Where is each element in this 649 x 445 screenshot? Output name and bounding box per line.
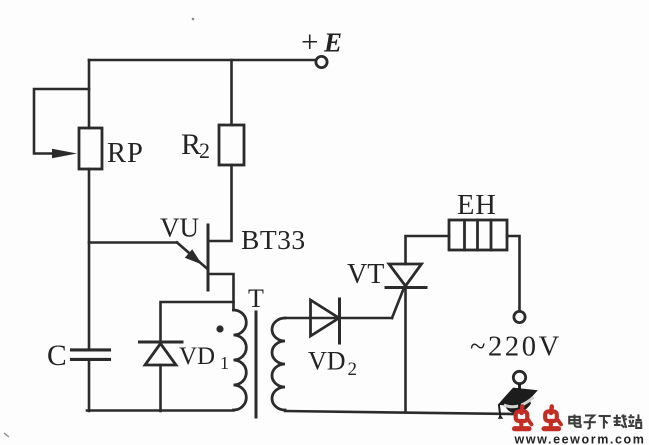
diode VD1 cathode bar bbox=[140, 341, 183, 344]
wire VT anode up to EH bbox=[406, 236, 450, 264]
svg-text:BT33: BT33 bbox=[241, 224, 306, 255]
watermark bug char 2 bbox=[544, 407, 561, 429]
svg-text:VU: VU bbox=[160, 213, 199, 243]
watermark cap gray arc bbox=[504, 397, 534, 407]
wire lower terminal lead through cap bbox=[518, 384, 521, 411]
terminal upper 220V bbox=[514, 311, 525, 322]
wire bottom rail right bbox=[285, 411, 513, 414]
svg-text:VD: VD bbox=[179, 343, 215, 370]
wire VT cathode down bbox=[404, 288, 407, 412]
char zi bbox=[584, 416, 596, 429]
transistor VU emitter arrow bbox=[185, 249, 202, 264]
potentiometer RP bbox=[79, 128, 102, 169]
wire R2 top bbox=[230, 60, 233, 125]
diode VD2 triangle bbox=[311, 300, 340, 336]
svg-text:2: 2 bbox=[199, 138, 210, 163]
RP wiper arrow bbox=[52, 149, 77, 159]
svg-text:+: + bbox=[301, 24, 318, 59]
capacitor C plates bbox=[72, 350, 110, 360]
svg-text:EH: EH bbox=[457, 190, 497, 221]
watermark bug char 1 bbox=[515, 407, 532, 429]
wire secondary top to gate bbox=[285, 317, 392, 320]
char dian bbox=[569, 415, 580, 427]
RP wiper loop wire bbox=[34, 89, 89, 154]
svg-text:R: R bbox=[181, 128, 201, 161]
wire EH to upper terminal bbox=[507, 236, 520, 311]
wire gate diagonal bbox=[392, 289, 404, 318]
watermark site name (vector CJK) bbox=[569, 414, 641, 428]
svg-text:E: E bbox=[323, 28, 342, 58]
wire emitter bbox=[89, 241, 177, 244]
svg-text:T: T bbox=[248, 284, 264, 313]
char xia bbox=[599, 416, 611, 429]
svg-text:2: 2 bbox=[348, 359, 358, 380]
transformer core bbox=[255, 312, 258, 417]
diode VD2 cathode bar bbox=[338, 299, 341, 343]
char zai bbox=[614, 415, 627, 429]
svg-text:~220V: ~220V bbox=[470, 332, 562, 363]
wire lower terminal lead bbox=[518, 384, 521, 394]
wire VD1 bottom bbox=[159, 365, 162, 411]
transformer T primary winding bbox=[234, 310, 247, 410]
svg-text:VD: VD bbox=[308, 347, 346, 376]
wire top supply rail bbox=[89, 59, 315, 62]
watermark cap board bbox=[498, 388, 538, 408]
svg-text:RP: RP bbox=[107, 138, 144, 169]
transformer T secondary winding bbox=[272, 318, 285, 410]
resistor R2 bbox=[219, 125, 244, 165]
terminal +E bbox=[316, 56, 327, 67]
svg-text:1: 1 bbox=[220, 353, 229, 373]
scan speck bottom left bbox=[4, 433, 9, 437]
transistor VU emitter diagonal bbox=[177, 243, 207, 269]
thyristor VT cathode bar bbox=[386, 286, 426, 289]
scan speck top bbox=[192, 18, 195, 21]
transformer phasing dot bbox=[216, 325, 223, 332]
thyristor VT triangle bbox=[389, 264, 422, 286]
watermark cap tassel bbox=[498, 405, 503, 419]
watermark cap crown bbox=[503, 396, 531, 413]
terminal lower 220V bbox=[513, 371, 525, 383]
transistor VU base bar bbox=[207, 225, 210, 290]
wire VD1 top bbox=[161, 302, 234, 341]
char zhan bbox=[628, 414, 641, 428]
svg-text:VT: VT bbox=[347, 259, 384, 290]
wire bottom rail left bbox=[87, 409, 234, 412]
svg-text:C: C bbox=[47, 340, 67, 372]
heater EH body bbox=[449, 220, 507, 250]
wire left vertical bbox=[88, 60, 91, 411]
wire R2 bottom to UJT base B2 bbox=[209, 165, 232, 241]
transistor VU base-1 lead bbox=[208, 274, 234, 310]
heater EH dividers bbox=[465, 220, 492, 250]
diode VD1 triangle bbox=[145, 344, 176, 366]
svg-text:www.eeworm.com: www.eeworm.com bbox=[514, 433, 646, 445]
